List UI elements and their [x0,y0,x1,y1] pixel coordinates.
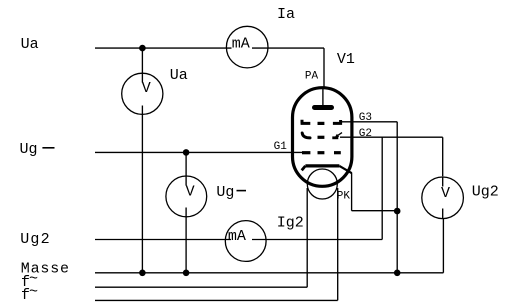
tube plate/anode bar [315,105,332,110]
grid G3 dash left with nub [301,120,311,124]
junction dot PK/G3 [394,208,401,215]
svg-text:G1: G1 [274,141,288,153]
wire Ug- meter column [185,152,187,272]
meter V (Ua) [122,73,163,114]
grid G1 dash mid [318,151,325,154]
grid G3 dash mid [318,122,325,125]
junction dot top wire [139,45,146,52]
svg-text:G2: G2 [359,128,372,140]
svg-text:Ug2: Ug2 [472,184,499,201]
svg-text:Ua: Ua [170,67,188,84]
svg-text:Ug: Ug [20,141,38,158]
svg-text:V: V [441,185,450,202]
meter V (Ug-) [166,176,207,217]
svg-text:~: ~ [29,284,38,301]
grid G2 hook left [302,133,310,138]
grid G1 dash left [302,151,310,154]
svg-text:Ig2: Ig2 [277,215,304,232]
grid G2 dash mid [318,136,325,139]
svg-text:G3: G3 [359,112,372,124]
wire Ua anode supply [95,48,324,105]
svg-text:PK: PK [337,191,351,203]
grid G2 dash right [332,136,338,139]
wire PK cathode lead [352,173,398,211]
tube V1 envelope [293,88,352,187]
svg-text:Ua: Ua [21,36,39,53]
meter V (Ug2) [422,177,464,219]
wire G3 to cathode junction and Masse [341,122,397,273]
junction dot Masse left [139,270,146,277]
wire Masse [95,219,443,273]
wire G2 to Ug2 meter [340,137,443,176]
junction dot Masse mid [183,270,190,277]
junction dot Masse right [394,270,401,277]
svg-text:mA: mA [232,35,250,52]
cathode diagonal to PK [339,166,351,173]
svg-text:V1: V1 [337,51,355,68]
svg-text:Ug: Ug [216,184,234,201]
svg-text:mA: mA [228,228,246,245]
svg-text:PA: PA [305,70,319,82]
wire f~ heater 2 [95,188,338,300]
cathode bar [305,164,339,167]
wire Ua meter column [141,48,143,273]
grid G3 dash right with nub [333,120,341,125]
svg-text:Ug2: Ug2 [20,231,51,248]
svg-text:Ia: Ia [277,6,295,23]
svg-text:V: V [142,80,151,97]
svg-text:V: V [186,184,195,201]
wire Ug2 supply [95,137,382,239]
wire Ug- / G1 [95,151,303,153]
heater dome circle [307,169,337,199]
meter mA (Ia) [226,26,268,68]
grid G2 arrow [338,133,342,136]
junction dot Ug- wire [183,149,190,156]
cathode hook left [302,166,306,170]
grid G1 dash right [334,151,341,154]
wire f~ heater 1 [95,188,307,287]
meter mA (Ig2) [225,221,266,262]
